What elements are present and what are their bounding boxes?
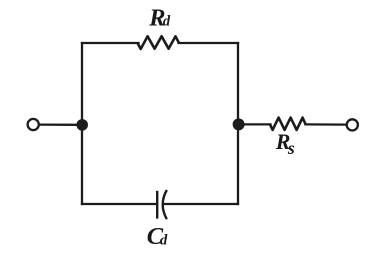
terminal: right output (open circle) [347, 119, 358, 130]
svg-text:Rs: Rs [275, 129, 295, 158]
wire: left vertical side of loop [81, 43, 83, 204]
node: right junction dot [233, 118, 245, 130]
wire: resistor Rs to right terminal [306, 123, 346, 125]
wire: left terminal to left node [40, 123, 77, 126]
resistor Rs [270, 118, 306, 130]
wire: top side of loop, right segment [179, 42, 239, 44]
wire: bottom side of loop, right segment [164, 203, 238, 205]
wire: right node to resistor Rs [244, 123, 271, 125]
node: left junction dot [76, 119, 88, 131]
wire: right vertical side of loop, upper segment [237, 43, 239, 125]
svg-text:Rd: Rd [148, 5, 171, 32]
wire: bottom side of loop, left segment [82, 203, 157, 205]
svg-text:Cd: Cd [147, 223, 168, 250]
terminal: left input (open circle) [28, 119, 39, 130]
capacitor Cd [157, 190, 167, 219]
wire: top side of loop, left segment [82, 42, 139, 44]
wire: right vertical side of loop, lower segment [237, 125, 239, 205]
resistor Rd [138, 36, 180, 49]
